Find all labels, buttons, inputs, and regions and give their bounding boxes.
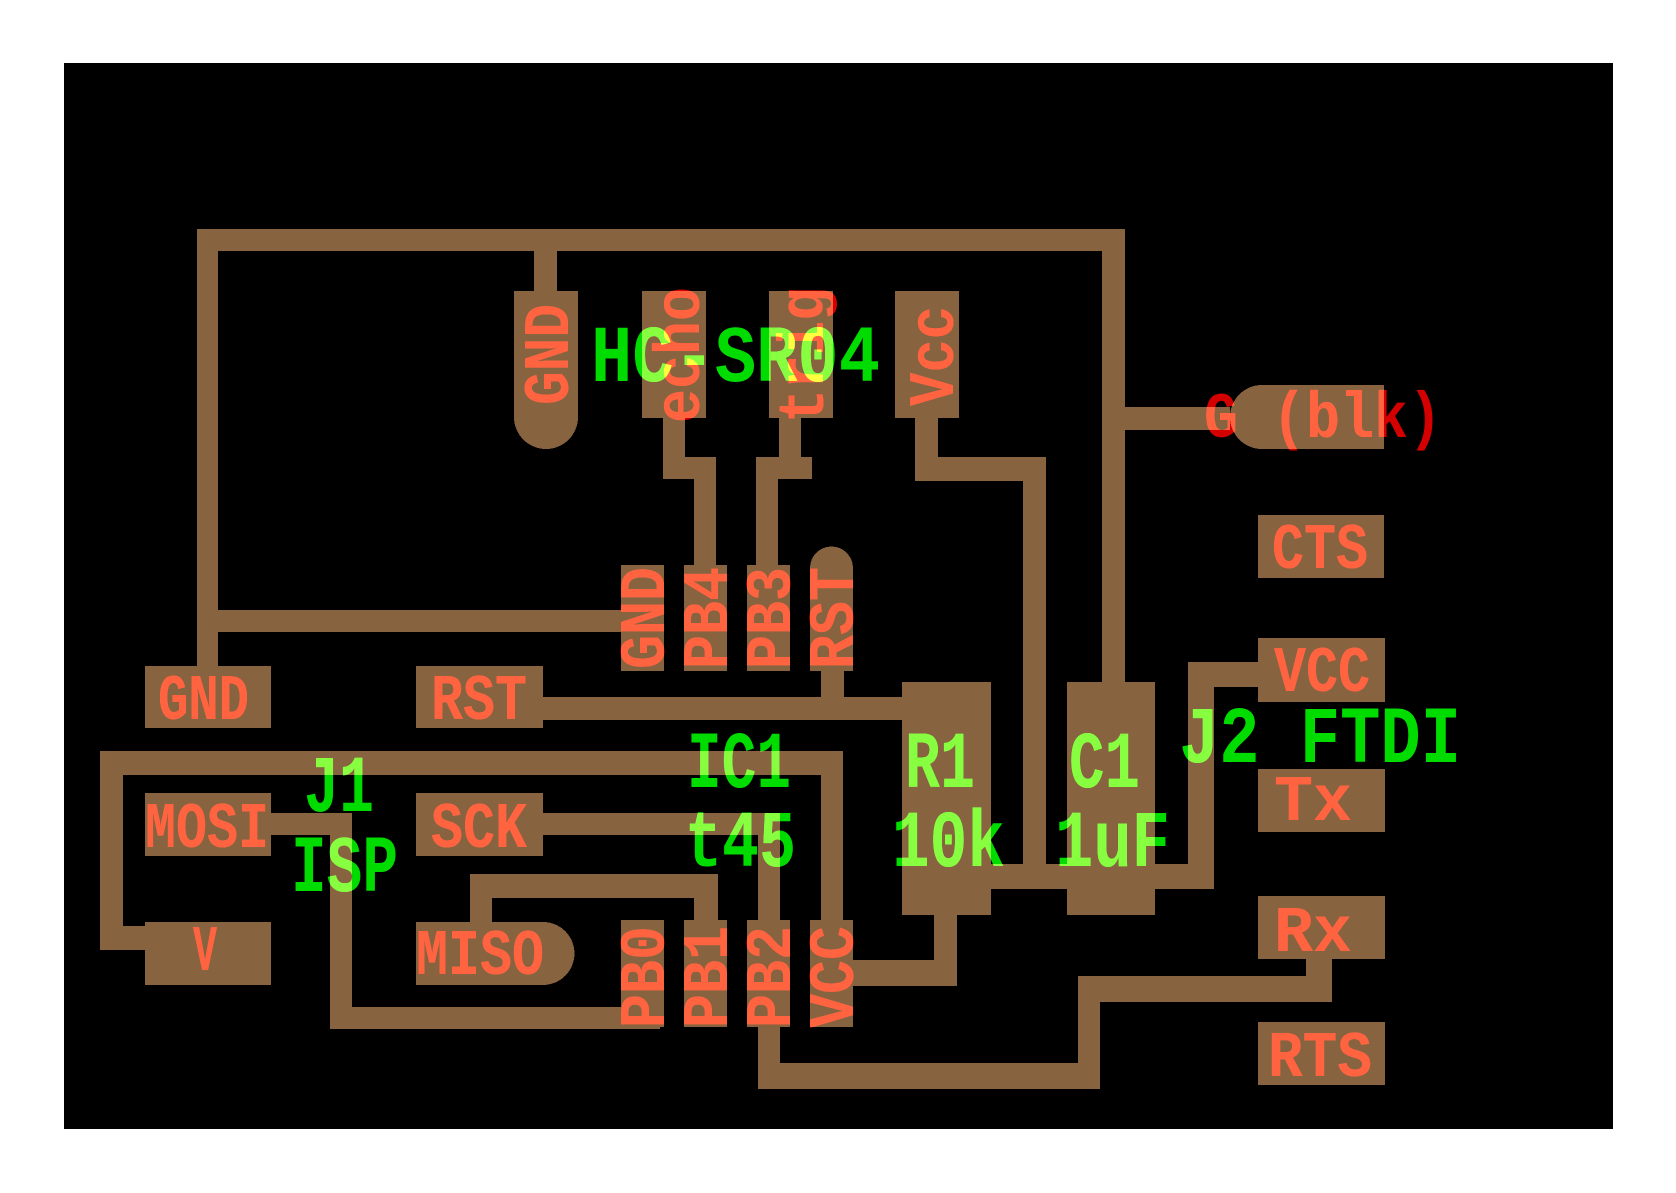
svg-text:t45: t45	[685, 800, 796, 891]
svg-text:RTS: RTS	[1268, 1022, 1372, 1096]
svg-text:R1: R1	[905, 721, 975, 812]
wire SCK trace	[543, 813, 780, 835]
wire riser to Rx trace	[1078, 976, 1100, 1089]
pad IC1 pin PB3	[747, 565, 790, 671]
svg-text:Vcc: Vcc	[899, 306, 973, 406]
pad J2 G blk (pin1, capsule left)	[1230, 385, 1294, 449]
wire VCC band	[990, 864, 1214, 889]
wire RST trace	[543, 697, 903, 720]
wire MISO horizontal	[470, 874, 718, 898]
svg-text:GND: GND	[514, 304, 588, 405]
wire MOSI to PB0 horizontal	[330, 1007, 660, 1029]
pad J2 CTS	[1258, 515, 1384, 578]
wire V net into V pad	[100, 926, 150, 950]
svg-text:RST: RST	[799, 567, 873, 669]
wire trig to PB3 seg3	[756, 457, 778, 569]
svg-text:ISP: ISP	[291, 825, 398, 916]
svg-text:Rx: Rx	[1274, 897, 1352, 971]
pad IC1 pin PB4	[684, 565, 727, 671]
pad J2 VCC	[1258, 638, 1385, 702]
wire MISO down to PB1	[694, 874, 718, 924]
pad IC1 pin GND	[621, 565, 664, 671]
pad J1 RST	[416, 666, 543, 728]
pad J1 MOSI	[145, 793, 271, 856]
pad IC1 pin VCC	[810, 920, 853, 1027]
wire V net left vertical	[100, 751, 123, 950]
pad J2 RTS	[1258, 1022, 1385, 1085]
pad HC-SR04 Vcc	[895, 291, 959, 418]
svg-text:J2 FTDI: J2 FTDI	[1179, 696, 1461, 787]
svg-text:MOSI: MOSI	[145, 793, 269, 867]
wire RST stub to IC1	[821, 671, 844, 701]
wire MOSI vertical	[330, 813, 352, 1029]
pad IC1 pin PB1	[684, 920, 727, 1027]
wire echo to PB4 seg3	[694, 457, 716, 569]
svg-text:IC1: IC1	[687, 721, 791, 812]
svg-text:RST: RST	[431, 665, 527, 739]
svg-text:SCK: SCK	[431, 793, 527, 867]
wire Rx horizontal	[1078, 976, 1332, 1002]
pad HC-SR04 trig	[769, 291, 833, 418]
wire stub to HC-SR04 GND pad	[534, 251, 557, 296]
pad J1 MISO (pin1, capsule right)	[416, 922, 543, 985]
svg-text:J1: J1	[304, 745, 374, 836]
wire GND top bus	[197, 229, 1125, 251]
wire trig to PB3 seg1	[779, 418, 801, 463]
pad IC1 pin PB2	[747, 920, 790, 1027]
svg-text:GND: GND	[158, 665, 249, 739]
pad J1 SCK	[416, 793, 543, 856]
wire Vcc sensor seg2	[915, 457, 1046, 481]
svg-text:V: V	[193, 916, 217, 990]
wire J2 VCC elbow horizontal	[1188, 662, 1258, 687]
wire bottom horizontal	[758, 1063, 1100, 1089]
wire trig to PB3 seg2	[756, 457, 812, 479]
wire echo to PB4 seg2	[663, 457, 715, 479]
pad HC-SR04 GND (capsule)	[514, 291, 578, 417]
svg-text:VCC: VCC	[799, 926, 873, 1028]
pad J2 Tx	[1258, 769, 1385, 832]
pad J1 GND	[145, 666, 271, 728]
wire PB2 vertical	[758, 813, 780, 1089]
svg-text:CTS: CTS	[1272, 514, 1368, 588]
wire R1 to IC1 VCC elbow	[850, 960, 957, 986]
capacitor C1 pads	[1067, 682, 1155, 915]
wire V net top horizontal	[100, 751, 843, 775]
pad IC1 pin PB0	[621, 920, 664, 1027]
svg-text:1uF: 1uF	[1055, 800, 1170, 891]
wire GND left vertical	[197, 229, 218, 666]
pad J2 Rx	[1258, 896, 1385, 959]
wire echo to PB4 seg1	[663, 418, 685, 463]
wire GND right vertical to C1	[1102, 229, 1125, 682]
svg-text:MISO: MISO	[416, 920, 544, 994]
wire Rx stub	[1306, 958, 1332, 1002]
wire R1 bottom stub	[934, 914, 957, 964]
svg-text:HC-SR04: HC-SR04	[591, 315, 880, 406]
wire MISO stub up	[470, 874, 492, 922]
wire Vcc sensor seg1	[915, 418, 938, 463]
pad HC-SR04 echo	[642, 291, 706, 418]
svg-text:C1: C1	[1069, 721, 1140, 812]
pad IC1 pin RST (pin1, capsule top)	[810, 547, 853, 590]
wire branch to G (blk) pad	[1125, 407, 1230, 430]
svg-text:10k: 10k	[892, 800, 1005, 891]
svg-text:G (blk): G (blk)	[1204, 383, 1442, 457]
wire MOSI stub	[271, 813, 352, 835]
wire GND branch to IC1 pin GND	[207, 610, 650, 632]
resistor R1 pads	[902, 682, 991, 915]
pad J1 V	[145, 922, 271, 985]
wire V net down to IC1 VCC	[821, 751, 843, 926]
wire J2 VCC elbow vertical	[1188, 662, 1214, 884]
wire Vcc sensor seg3 down to VCC band	[1023, 457, 1046, 889]
